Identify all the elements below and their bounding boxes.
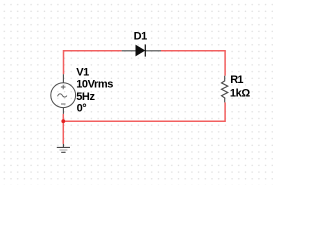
svg-text:10Vrms: 10Vrms: [76, 79, 113, 91]
ground bar 1: [57, 146, 70, 148]
wire bottom: R1 bottom to junction: [63, 102, 225, 121]
resistor R1 leads and zigzag: [222, 76, 228, 103]
svg-text:0°: 0°: [77, 102, 87, 114]
wire: V1 bottom to ground: [62, 114, 64, 144]
diode D1 cathode bar: [144, 44, 146, 56]
source V1 sine wave: [58, 94, 67, 97]
svg-text:1kΩ: 1kΩ: [230, 88, 250, 100]
wire top-right: diode cathode to R1 top: [161, 51, 225, 76]
wire top-left: V1 top to diode anode: [64, 51, 122, 75]
source V1 plus sign: [61, 85, 66, 90]
node junction dot: [61, 119, 65, 123]
diode D1 leads: [122, 50, 161, 52]
svg-text:5Hz: 5Hz: [76, 91, 95, 103]
svg-text:R1: R1: [230, 74, 243, 86]
op source V1 leads: [62, 74, 64, 114]
source V1 minus sign: [61, 103, 66, 105]
source V1 circle: [51, 83, 76, 108]
ground bar 3: [61, 151, 65, 153]
svg-text:V1: V1: [76, 66, 89, 78]
diode D1 triangle: [136, 45, 146, 57]
ground lead: [62, 144, 64, 147]
svg-text:D1: D1: [134, 31, 148, 43]
ground bar 2: [60, 149, 68, 151]
